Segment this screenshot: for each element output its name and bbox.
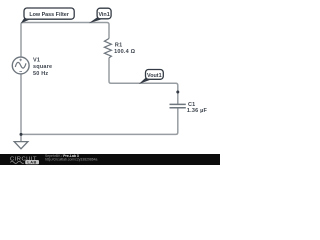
svg-text:Low Pass Filter: Low Pass Filter [29, 12, 69, 18]
svg-text:square: square [33, 64, 52, 70]
svg-text:Vout1: Vout1 [147, 73, 162, 79]
svg-text:LAB: LAB [27, 160, 37, 165]
svg-text:R1: R1 [115, 43, 122, 49]
svg-text:100.4 Ω: 100.4 Ω [114, 49, 135, 55]
svg-text:Vin1: Vin1 [98, 12, 109, 18]
svg-text:1.36 µF: 1.36 µF [187, 108, 208, 114]
svg-text:50 Hz: 50 Hz [33, 71, 48, 77]
svg-text:V1: V1 [33, 58, 40, 64]
svg-text:http://circuitlab.com/c2y33829: http://circuitlab.com/c2y33829864a [45, 158, 98, 162]
